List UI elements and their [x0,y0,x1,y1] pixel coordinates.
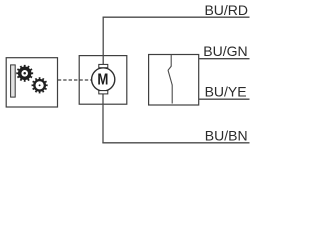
pump unit box [6,58,57,107]
motor brush bottom [99,91,108,94]
svg-text:BU/GN: BU/GN [203,43,247,59]
wire motor bottom [102,94,104,143]
switch contact [168,55,172,104]
switch box [149,55,199,106]
svg-text:M: M [97,71,108,88]
gear 1 [16,65,33,82]
wire BU/YE [199,98,250,100]
svg-text:BU/RD: BU/RD [204,2,248,18]
svg-text:BU/YE: BU/YE [205,84,247,100]
mechanical coupling dashed wire [58,79,92,81]
gear 2 [32,77,48,93]
svg-text:BU/BN: BU/BN [205,127,248,143]
wire motor top [102,17,104,64]
wire BU/BN [102,142,249,144]
pump mounting bar [11,65,16,97]
motor M1 circle [92,68,115,91]
motor brush top [99,64,108,67]
wire BU/GN [199,58,250,60]
wire BU/RD [103,16,250,18]
motor box [79,56,127,105]
